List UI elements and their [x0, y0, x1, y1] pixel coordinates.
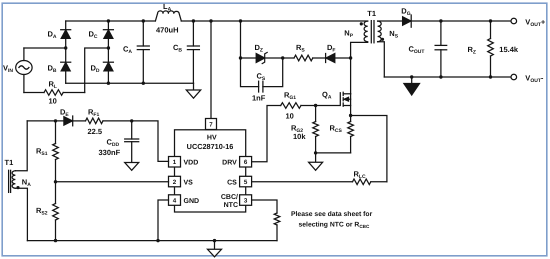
wire drain node down to QA drain: [350, 58, 352, 94]
terminal VOUT+: [511, 18, 517, 24]
source VIN: [16, 48, 32, 93]
capacitor CS 1nF parallel branch: [241, 58, 283, 92]
diode DF: [326, 54, 351, 63]
resistor RS: [294, 55, 313, 61]
node COUT bottom: [439, 75, 442, 78]
svg-text:T1: T1: [367, 9, 376, 18]
wire RG1 to gate node: [301, 105, 316, 107]
resistor RG1 10: [281, 103, 301, 109]
svg-text:HV: HV: [207, 134, 217, 141]
resistor RLC: [353, 179, 371, 185]
transformer T1 aux winding NA: [9, 170, 16, 192]
diode DD: [103, 48, 113, 83]
terminal VOUT-: [511, 74, 517, 80]
ground under RG2: [309, 153, 323, 170]
ground under CB: [186, 83, 200, 98]
node HV tap: [209, 19, 212, 22]
node secondary ground tap: [410, 75, 413, 78]
wire NS bottom lead: [378, 42, 385, 77]
svg-text:VS: VS: [184, 179, 194, 186]
wire VDD row (DE RF1 CDD): [27, 120, 64, 122]
svg-text:330nF: 330nF: [99, 148, 121, 157]
wire CS pin to RLC: [252, 181, 353, 183]
svg-text:UCC28710-16: UCC28710-16: [187, 142, 234, 151]
pin 5 box: [240, 176, 252, 187]
pin 1 box: [169, 157, 181, 168]
diode DE: [64, 116, 86, 126]
wire VIN top to bridge left node: [24, 47, 66, 49]
wire bridge negative rail: [66, 82, 194, 84]
svg-text:CS: CS: [227, 179, 237, 186]
ground main (bottom rail): [208, 241, 222, 257]
node RS2 bottom on rail: [54, 239, 57, 242]
capacitor CA: [137, 21, 149, 83]
wire NA top lead to VDD row: [15, 121, 27, 171]
node DD anode on neg rail: [107, 82, 110, 85]
node source-RCS junction: [349, 114, 352, 117]
resistor RZ 15.4k: [488, 21, 494, 77]
node clamp left: [239, 56, 242, 59]
capacitor COUT: [435, 21, 447, 77]
diode DB: [61, 48, 71, 83]
resistor RS1: [53, 121, 59, 182]
svg-text:3: 3: [244, 198, 248, 205]
pin 6 box: [240, 157, 252, 168]
svg-text:1: 1: [173, 159, 177, 166]
wire clamp feed: [240, 21, 242, 58]
wire pin3 to NTC: [252, 200, 277, 213]
node RZ bottom: [489, 75, 492, 78]
NS phase dot: [381, 38, 384, 41]
svg-text:DRV: DRV: [222, 160, 237, 167]
node RZ top: [489, 19, 492, 22]
svg-text:CBC/: CBC/: [221, 193, 238, 201]
svg-text:T1: T1: [5, 158, 14, 167]
svg-text:470uH: 470uH: [156, 26, 179, 35]
node switch-drain clamp junction: [349, 56, 352, 59]
zener DZ: [241, 52, 283, 63]
node bridge left AC: [64, 46, 67, 49]
pin 2 box: [169, 176, 181, 187]
node main ground tap: [213, 239, 216, 242]
resistor NTC: [274, 213, 280, 241]
wire RCS bottom to RG2 bottom: [316, 152, 351, 154]
resistor RCS: [348, 116, 354, 153]
svg-text:NTC: NTC: [224, 202, 238, 209]
wire bottom rail: [27, 240, 277, 242]
wire VIN bottom to RL: [24, 92, 44, 94]
node GND drop on rail: [156, 239, 159, 242]
node DC cathode on rail: [107, 19, 110, 22]
svg-text:7: 7: [209, 121, 213, 128]
svg-text:22.5: 22.5: [88, 127, 103, 136]
transistor QA (n-MOSFET): [316, 92, 351, 115]
wire VS to pin2: [56, 181, 169, 183]
node CB top: [192, 19, 195, 22]
wire NP bottom lead to drain node: [351, 42, 368, 58]
wire RF1 to VDD corner: [103, 121, 169, 161]
node CA top: [142, 19, 145, 22]
transformer T1 primary NP: [364, 21, 368, 42]
NP phase dot: [360, 22, 363, 25]
svg-text:10: 10: [49, 97, 57, 106]
diode DC: [103, 21, 113, 48]
ground under CDD: [125, 163, 139, 171]
svg-text:1nF: 1nF: [252, 94, 266, 103]
node clamp tap: [239, 19, 242, 22]
diode DG: [403, 15, 511, 27]
svg-text:10: 10: [286, 112, 294, 121]
resistor RG2 10k: [313, 106, 319, 153]
wire DRV riser: [252, 106, 281, 162]
resistor RL 10: [44, 90, 63, 96]
svg-text:10k: 10k: [293, 132, 306, 141]
wire GND pin to rail: [158, 200, 169, 241]
inductor LA 470uH: [155, 11, 181, 21]
pin 4 box: [169, 195, 181, 206]
svg-text:15.4k: 15.4k: [499, 45, 519, 54]
capacitor CDD 330nF: [125, 121, 139, 163]
ground secondary (filled): [404, 77, 420, 95]
svg-text:GND: GND: [184, 198, 200, 205]
node VS divider junction: [54, 180, 57, 183]
wire output bottom rail: [384, 76, 511, 78]
svg-text:4: 4: [173, 198, 177, 205]
svg-text:5: 5: [244, 179, 248, 186]
svg-text:Please see data sheet for: Please see data sheet for: [291, 211, 373, 218]
op-amp U1 body (UCC28710 controller): [175, 130, 246, 212]
wire NA bottom lead to bottom rail: [15, 188, 27, 240]
wire CS sense from source node: [351, 116, 387, 182]
svg-text:VDD: VDD: [184, 160, 199, 167]
node RS1 tap: [54, 119, 57, 122]
node DZ-RS junction: [281, 56, 284, 59]
wire RL to AC2 riser: [63, 92, 84, 94]
NA phase dot: [16, 186, 19, 189]
pin 7 box: [206, 119, 217, 130]
wire top rail left (bridge to LA): [66, 20, 156, 22]
wire AC2 riser to DC-DD junction: [85, 48, 109, 93]
wire DZ junction to RS: [283, 57, 294, 59]
transformer T1 core: [371, 21, 374, 43]
wire NS top to DG: [378, 20, 403, 22]
resistor RF1 22.5: [86, 118, 104, 124]
diode DA: [61, 21, 71, 48]
resistor RS2: [53, 182, 59, 241]
node CA bottom: [142, 82, 145, 85]
wire top rail from LA to transformer primary: [181, 20, 367, 22]
svg-text:6: 6: [244, 159, 248, 166]
transformer T1 secondary NS: [378, 21, 382, 42]
node COUT top: [439, 19, 442, 22]
wire HV feed to pin7: [210, 21, 212, 119]
node bridge right AC: [107, 46, 110, 49]
node gate-RG2 junction: [314, 104, 317, 107]
capacitor CB: [187, 21, 199, 83]
node RG2 ground junction: [314, 151, 317, 154]
wire RLC to riser: [371, 181, 387, 183]
svg-text:selecting NTC or RCBC: selecting NTC or RCBC: [299, 221, 370, 229]
node CDD tap: [130, 119, 133, 122]
svg-text:2: 2: [173, 179, 177, 186]
wire RS to DF: [313, 57, 326, 59]
pin 3 box: [240, 195, 252, 206]
